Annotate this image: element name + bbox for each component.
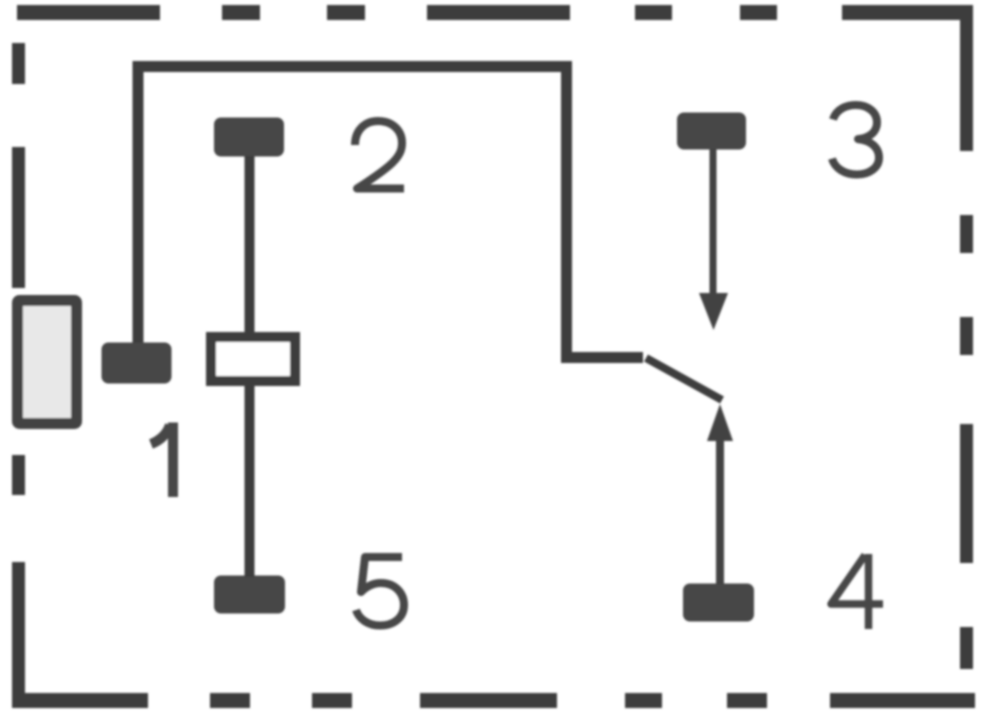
case outline bottom dash 2	[210, 693, 250, 708]
arrowhead pin3 NC contact	[699, 293, 728, 330]
case outline left dash 3	[12, 455, 25, 495]
switch blade	[646, 358, 722, 400]
case outline bottom-right dash	[830, 693, 975, 708]
case outline top dash 1	[17, 5, 160, 20]
label 3	[832, 105, 879, 175]
case outline left dash 2	[12, 147, 25, 288]
label 5	[356, 557, 404, 626]
wire pin1 to common contact	[138, 67, 643, 358]
case outline bottom dash 5	[625, 693, 662, 708]
case outline right dash 2	[960, 215, 973, 253]
label 2	[355, 121, 404, 189]
coil K1	[211, 337, 295, 381]
case outline bottom dash 6	[727, 693, 767, 708]
case outline bottom dash 3	[312, 693, 352, 708]
label 4	[831, 554, 883, 629]
label 1	[151, 423, 173, 498]
arrowhead pin4 NO contact	[707, 404, 733, 441]
case outline top dash 6	[740, 5, 777, 20]
terminal pad 3	[677, 113, 746, 150]
wire coil to pin5	[245, 386, 255, 577]
arrow shaft pin3 NC contact	[710, 149, 717, 298]
case outline top dash 2	[222, 5, 260, 20]
coil polarity indicator	[18, 301, 77, 424]
case outline bottom-left corner dash	[12, 562, 148, 708]
terminal pad 2	[214, 118, 284, 157]
terminal pad 1	[102, 343, 172, 384]
terminal pad 4	[683, 584, 754, 622]
case outline bottom dash 4	[420, 693, 557, 708]
case outline top-right corner dash	[842, 5, 973, 151]
terminal pad 5	[214, 576, 285, 614]
case outline top dash 3	[327, 5, 365, 20]
case outline top dash 5	[635, 5, 672, 20]
case outline left dash 1	[12, 43, 25, 84]
case outline top dash 4	[427, 5, 570, 20]
case outline right dash 5	[960, 627, 973, 669]
arrow shaft pin4 NO contact	[716, 436, 724, 584]
wire pin2 to coil	[245, 156, 255, 332]
case outline right dash 4	[960, 424, 973, 563]
case outline right dash 3	[960, 317, 973, 355]
